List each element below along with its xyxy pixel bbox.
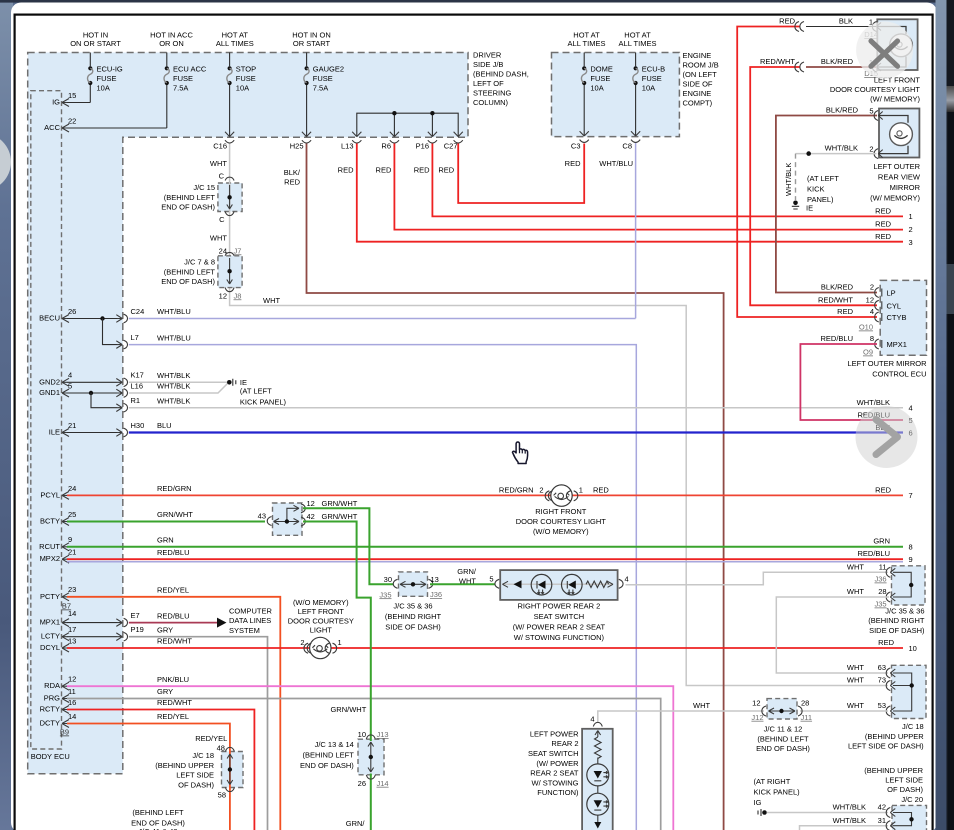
svg-text:2: 2 — [870, 283, 874, 292]
svg-text:13: 13 — [68, 636, 76, 645]
label J/C 35 & 36 (BEHIND RIGHT SIDE OF DASH) right — [868, 606, 925, 635]
J/C 13 & 14 connector glyphs — [358, 730, 389, 788]
terminal 7 RED — [875, 485, 913, 500]
svg-text:DCTY: DCTY — [40, 719, 60, 728]
svg-text:(BEHIND LEFT: (BEHIND LEFT — [757, 734, 809, 743]
svg-text:J35: J35 — [379, 590, 391, 599]
svg-text:ENGINE: ENGINE — [683, 51, 712, 60]
pin DCTY 14 — [40, 712, 77, 728]
svg-text:GRN/: GRN/ — [346, 819, 366, 828]
wire RDA PNK/BLU right then down to page bottom — [67, 686, 673, 830]
svg-text:12: 12 — [68, 675, 76, 684]
wire WHT J/C 11-12 pin 28 to J/C 18 pin 53 — [800, 710, 888, 712]
wire LCTY GRY right then down to page bottom — [129, 637, 268, 830]
svg-text:10A: 10A — [590, 84, 603, 93]
svg-text:J/C 7 & 8: J/C 7 & 8 — [184, 258, 215, 267]
svg-text:RED/YEL: RED/YEL — [157, 586, 189, 595]
svg-text:22: 22 — [68, 116, 76, 125]
svg-text:P16: P16 — [416, 142, 429, 151]
J/C 15 box — [218, 183, 242, 212]
svg-text:SIDE OF: SIDE OF — [683, 80, 713, 89]
terminal 2 RED — [875, 219, 913, 234]
label (BEHIND LEFT END OF DASH) J/C 41 & 42 bottom left — [131, 808, 185, 830]
svg-text:26: 26 — [68, 307, 76, 316]
J/C 35-36 left internal wiring — [400, 581, 426, 587]
svg-text:RED/BLU: RED/BLU — [157, 548, 190, 557]
net label HOT AT ALL TIMES (STOP) — [216, 31, 254, 48]
wire K17 WHT/BLK to ground — [129, 381, 227, 383]
wire DCTY RED/YEL right then down through J/C 18 to page bottom — [67, 724, 230, 830]
svg-text:(AT LEFT: (AT LEFT — [807, 174, 839, 183]
svg-text:14: 14 — [68, 609, 76, 618]
svg-text:7.5A: 7.5A — [313, 84, 328, 93]
pin LCTY 17 to P19 — [41, 625, 144, 641]
svg-text:4: 4 — [625, 574, 629, 583]
wire C24 WHT/BLU to C8 join — [129, 318, 636, 320]
J/C 43 internal wiring — [274, 504, 306, 526]
svg-text:END OF DASH): END OF DASH) — [161, 203, 215, 212]
wire PCTY RED/YEL right then down to page bottom — [67, 597, 280, 830]
component RIGHT FRONT DOOR COURTESY LIGHT — [545, 485, 578, 506]
svg-text:RED/BLU: RED/BLU — [820, 334, 853, 343]
svg-text:GRN/WHT: GRN/WHT — [322, 499, 358, 508]
svg-text:FUSE: FUSE — [313, 74, 333, 83]
svg-text:J7: J7 — [234, 246, 242, 255]
svg-text:RED: RED — [875, 206, 891, 215]
svg-text:10A: 10A — [97, 84, 110, 93]
svg-text:DATA LINES: DATA LINES — [229, 616, 271, 625]
svg-text:LIGHT: LIGHT — [310, 626, 333, 635]
svg-text:LEFT FRONT: LEFT FRONT — [298, 607, 345, 616]
svg-text:(BEHIND UPPER: (BEHIND UPPER — [865, 732, 924, 741]
wire C8 WHT/BLU down joins C24 line — [635, 143, 637, 318]
svg-text:W/ STOWING FUNCTION): W/ STOWING FUNCTION) — [514, 633, 605, 642]
svg-text:53: 53 — [878, 701, 886, 710]
svg-text:26: 26 — [358, 779, 366, 788]
svg-text:J/C 35 & 36: J/C 35 & 36 — [885, 606, 924, 615]
svg-text:ALL TIMES: ALL TIMES — [619, 39, 657, 48]
label (AT RIGHT KICK PANEL) IG — [754, 777, 801, 807]
J/C 18 right pin 63 — [847, 663, 895, 678]
svg-text:CTYB: CTYB — [887, 313, 907, 322]
wire color label BLK/RED under H25 — [284, 168, 301, 187]
svg-text:RED: RED — [875, 485, 891, 494]
svg-text:STEERING: STEERING — [473, 88, 512, 97]
svg-text:FUSE: FUSE — [236, 74, 256, 83]
svg-text:16: 16 — [68, 698, 76, 707]
svg-text:LEFT POWER: LEFT POWER — [530, 729, 579, 738]
svg-text:REAR VIEW: REAR VIEW — [878, 172, 921, 181]
svg-text:GRN: GRN — [157, 536, 174, 545]
svg-text:(W/ MEMORY): (W/ MEMORY) — [870, 94, 920, 103]
svg-text:GRN/WHT: GRN/WHT — [322, 512, 358, 521]
wire J/C43 pin 12 GRN/WHT to J/C 35-36 pin 30 — [303, 508, 394, 584]
left power seat switch internals — [587, 731, 609, 829]
labels around right front courtesy light — [499, 486, 610, 495]
svg-text:CONTROL ECU: CONTROL ECU — [872, 369, 926, 378]
junction dot GND1 branch — [89, 391, 93, 395]
svg-text:DOOR COURTESY LIGHT: DOOR COURTESY LIGHT — [830, 85, 921, 94]
svg-text:C: C — [219, 215, 225, 224]
svg-text:MPX2: MPX2 — [40, 554, 60, 563]
svg-text:RED: RED — [593, 486, 609, 495]
svg-text:RED: RED — [284, 177, 300, 186]
svg-text:J14: J14 — [377, 779, 389, 788]
svg-text:BECU: BECU — [39, 314, 60, 323]
svg-text:ECU-IG: ECU-IG — [97, 65, 123, 74]
ground IG at right kick panel — [758, 809, 767, 816]
svg-text:BLK/RED: BLK/RED — [821, 57, 854, 66]
wire RCTY RED/WHT right then down to page bottom — [67, 710, 254, 830]
wire WHT J/C35-36 pin 28 to J/C 18 pin 63 — [776, 597, 889, 673]
svg-text:RED/WHT: RED/WHT — [818, 295, 853, 304]
right window frame — [936, 0, 954, 830]
pin IG 15 — [52, 91, 76, 107]
svg-text:DOOR COURTESY: DOOR COURTESY — [288, 616, 354, 625]
svg-text:(BEHIND UPPER: (BEHIND UPPER — [864, 766, 923, 775]
svg-text:IE: IE — [806, 204, 813, 213]
svg-text:1: 1 — [579, 486, 583, 495]
svg-text:MPX1: MPX1 — [887, 340, 907, 349]
wire branch BECU to L7 — [103, 319, 118, 345]
wire WHT left seat switch pin 4 to J/C 11-12 pin 12 — [598, 711, 764, 722]
wire DCYL RED/WHT to left front courtesy light and terminal 10 — [67, 647, 903, 649]
svg-text:9: 9 — [909, 555, 913, 564]
svg-text:J12: J12 — [751, 713, 763, 722]
svg-text:(BEHIND LEFT: (BEHIND LEFT — [132, 808, 184, 817]
svg-text:(ON LEFT: (ON LEFT — [683, 70, 718, 79]
svg-text:KICK: KICK — [807, 185, 825, 194]
mirror ECU pin MPX1 — [820, 334, 906, 349]
pin ILE 21 to H30 — [49, 421, 145, 437]
svg-text:(BEHIND RIGHT: (BEHIND RIGHT — [868, 616, 925, 625]
svg-text:J36: J36 — [430, 590, 442, 599]
svg-text:SYSTEM: SYSTEM — [229, 626, 260, 635]
label LEFT OUTER REAR VIEW MIRROR (W/ MEMORY) — [870, 162, 921, 203]
pin PRG 11 — [44, 687, 76, 703]
svg-text:GAUGE2: GAUGE2 — [313, 65, 344, 74]
junction dot BECU branch — [100, 316, 104, 320]
connector C3 on engine J/B edge — [571, 131, 589, 151]
svg-text:SIDE OF DASH): SIDE OF DASH) — [869, 626, 925, 635]
svg-text:C27: C27 — [444, 142, 458, 151]
label J/C 15 — [161, 183, 215, 212]
wire R1 WHT/BLK long to terminal 4 — [129, 407, 903, 409]
connector P16 on J/B edge — [416, 132, 437, 151]
net label HOT AT ALL TIMES (ECU-B) — [619, 31, 657, 48]
svg-text:ILE: ILE — [49, 428, 60, 437]
pin MPX1 14 to E7 — [40, 609, 140, 627]
svg-text:11: 11 — [68, 687, 76, 696]
svg-text:B9: B9 — [60, 728, 69, 737]
wire R6 RED to terminal 2 — [394, 144, 903, 230]
svg-text:RIGHT FRONT: RIGHT FRONT — [535, 507, 587, 516]
mirror ECU pin CTYB — [837, 307, 906, 322]
wire WHT/BLK from page bottom to J/C 20 pin 31 — [800, 826, 889, 830]
svg-text:J/C 15: J/C 15 — [193, 183, 215, 192]
J/C 35 and 36 right box — [892, 566, 926, 605]
right seat switch internals — [502, 574, 613, 595]
svg-text:WHT/BLU: WHT/BLU — [599, 159, 633, 168]
svg-text:2: 2 — [909, 225, 913, 234]
svg-text:C24: C24 — [131, 307, 145, 316]
svg-text:(BEHIND LEFT: (BEHIND LEFT — [303, 751, 355, 760]
label LEFT OUTER MIRROR CONTROL ECU — [847, 359, 927, 379]
svg-text:SIDE OF DASH): SIDE OF DASH) — [385, 623, 441, 632]
label J/C 35 & 36 (BEHIND RIGHT SIDE OF DASH) — [385, 602, 442, 632]
svg-text:WHT: WHT — [693, 701, 710, 710]
svg-text:4: 4 — [870, 307, 874, 316]
svg-text:L13: L13 — [341, 142, 354, 151]
svg-text:30: 30 — [384, 575, 392, 584]
terminal 4 WHT/BLK — [857, 398, 913, 413]
pin RCUT 9 — [39, 535, 72, 551]
J/C 18 right internal wiring — [893, 673, 914, 711]
label (W/O MEMORY) LEFT FRONT DOOR COURTESY LIGHT — [288, 598, 354, 635]
wire fuse ECU ACC to ACC pin — [67, 127, 167, 129]
svg-text:58: 58 — [218, 791, 226, 800]
wire BCTY GRN/WHT to J/C 43 — [67, 521, 265, 523]
J/C 18 left pin 48 — [217, 744, 235, 753]
svg-text:LEFT OF: LEFT OF — [473, 79, 504, 88]
svg-text:BLK: BLK — [839, 17, 853, 26]
svg-text:END OF DASH): END OF DASH) — [300, 761, 354, 770]
wire MPX2 RED/BLU long to terminal 9 — [67, 558, 903, 560]
svg-text:ACC: ACC — [44, 123, 60, 132]
svg-text:GRN/WHT: GRN/WHT — [330, 705, 366, 714]
svg-text:13: 13 — [431, 575, 439, 584]
svg-text:WHT: WHT — [210, 233, 227, 242]
svg-text:ENGINE: ENGINE — [683, 89, 712, 98]
svg-text:WHT/BLK: WHT/BLK — [825, 144, 858, 153]
pin 12 J8 labels — [219, 291, 242, 300]
svg-text:WHT/BLK: WHT/BLK — [784, 163, 793, 196]
svg-text:C16: C16 — [213, 142, 227, 151]
wire L7 WHT/BLU long down to page bottom — [129, 345, 637, 830]
svg-text:5: 5 — [489, 574, 493, 583]
svg-text:FUSE: FUSE — [642, 74, 662, 83]
svg-text:ECU-B: ECU-B — [642, 65, 665, 74]
fuse ECU ACC 7.5A — [164, 53, 207, 129]
svg-text:LEFT SIDE: LEFT SIDE — [885, 776, 923, 785]
svg-text:J8: J8 — [234, 291, 242, 300]
connector L13 on J/B edge — [341, 132, 361, 151]
pin BCTY 25 — [40, 510, 76, 526]
terminal 1 RED — [875, 206, 913, 221]
svg-text:C3: C3 — [571, 142, 581, 151]
svg-text:BLU: BLU — [157, 421, 172, 430]
svg-text:IG: IG — [754, 798, 762, 807]
engine room J/B box — [552, 53, 680, 137]
pin 42 GRN/WHT label — [307, 512, 358, 521]
wire L16 WHT/BLK diagonal to ground — [129, 384, 228, 394]
J/C 13 and 14 box — [358, 739, 384, 775]
connector arcs light D14 D15 pins — [872, 22, 881, 73]
pin PCTY 23 — [40, 585, 76, 601]
pin 5 right seat switch — [489, 574, 499, 588]
svg-text:10A: 10A — [642, 84, 655, 93]
J/C 35-36 right pin 11 — [847, 562, 895, 583]
J/C 7 & 8 box — [218, 256, 242, 288]
wire J/C43 pin 42 GRN/WHT down to J/C 13-14 — [303, 522, 371, 830]
svg-text:LP: LP — [887, 289, 896, 298]
svg-text:MIRROR: MIRROR — [890, 183, 921, 192]
svg-text:RED/WHT: RED/WHT — [760, 57, 795, 66]
svg-text:WHT/BLU: WHT/BLU — [157, 333, 191, 342]
svg-text:WHT: WHT — [210, 159, 227, 168]
wire D15 net RED/WHT vertical from CYL up right — [750, 67, 877, 305]
pin RDA 12 — [44, 675, 76, 691]
wire fuse ECU-IG to IG pin — [67, 102, 90, 104]
label J/C 18 (BEHIND UPPER LEFT SIDE OF DASH) right — [848, 722, 924, 751]
svg-text:5: 5 — [869, 106, 873, 115]
svg-text:12: 12 — [866, 295, 874, 304]
svg-text:SEAT SWITCH: SEAT SWITCH — [528, 749, 579, 758]
driver side J/B (L-shaped box) — [28, 53, 468, 774]
svg-text:RED: RED — [875, 232, 891, 241]
fuse ECU-IG 10A — [88, 53, 123, 103]
mouse hand cursor — [513, 442, 528, 464]
svg-text:21: 21 — [68, 421, 76, 430]
svg-text:LEFT OUTER: LEFT OUTER — [873, 162, 920, 171]
svg-text:(BEHIND RIGHT: (BEHIND RIGHT — [385, 612, 442, 621]
junction dot bus P16 — [430, 111, 434, 115]
wire C27 to C3 RED U-shape — [458, 144, 584, 204]
terminal 8 GRN — [873, 537, 912, 552]
svg-text:OF DASH): OF DASH) — [178, 780, 214, 789]
svg-text:WHT/BLU: WHT/BLU — [157, 307, 191, 316]
svg-text:WHT/BLK: WHT/BLK — [157, 371, 190, 380]
pin RCTY 16 — [40, 698, 77, 714]
terminal 3 RED — [875, 232, 913, 247]
svg-text:WHT: WHT — [847, 562, 864, 571]
svg-text:1: 1 — [338, 638, 342, 647]
ground IE at left kick panel — [227, 378, 287, 406]
svg-text:J/C 13 & 14: J/C 13 & 14 — [315, 740, 354, 749]
svg-text:ROOM J/B: ROOM J/B — [683, 61, 719, 70]
svg-text:25: 25 — [68, 510, 76, 519]
svg-text:MPX1: MPX1 — [40, 618, 60, 627]
fuse ECU-B 10A — [633, 53, 665, 136]
svg-text:28: 28 — [878, 587, 886, 596]
wire H25 BLK/RED down right and down to page bottom — [307, 144, 724, 830]
svg-text:2: 2 — [300, 638, 304, 647]
svg-text:END OF DASH): END OF DASH) — [756, 744, 810, 753]
J/C 11-12 pin 12 — [751, 699, 766, 722]
svg-text:10A: 10A — [236, 84, 249, 93]
svg-text:R6: R6 — [381, 142, 391, 151]
svg-text:2: 2 — [539, 486, 543, 495]
svg-text:12: 12 — [219, 291, 227, 300]
J/C 43 box — [273, 503, 303, 535]
svg-text:OR ON: OR ON — [159, 39, 184, 48]
label DRIVER SIDE J/B — [473, 50, 529, 107]
svg-text:RED: RED — [414, 166, 430, 175]
svg-text:RED/GRN: RED/GRN — [157, 484, 192, 493]
svg-text:WHT/BLK: WHT/BLK — [857, 398, 890, 407]
svg-text:RED: RED — [875, 219, 891, 228]
J/C 43 connector glyphs — [258, 512, 272, 526]
svg-text:7: 7 — [909, 491, 913, 500]
net label HOT AT ALL TIMES (DOME) — [568, 31, 606, 48]
svg-text:P19: P19 — [131, 625, 144, 634]
svg-text:12: 12 — [307, 499, 315, 508]
svg-text:(W/ POWER: (W/ POWER — [536, 759, 579, 768]
label RIGHT FRONT DOOR COURTESY LIGHT (W/O MEMORY) — [516, 507, 607, 536]
svg-text:OF DASH): OF DASH) — [887, 785, 923, 794]
connector splice on D14 wire — [795, 22, 804, 32]
arrowhead computer data lines — [217, 618, 227, 628]
J/C15 internal arrow and dot — [225, 185, 234, 216]
svg-text:J/C 20: J/C 20 — [901, 795, 923, 804]
mirror ECU pin CYL — [818, 295, 901, 310]
next page arrow overlay — [856, 406, 918, 468]
svg-text:RED: RED — [779, 17, 795, 26]
svg-text:DRIVER: DRIVER — [473, 50, 502, 59]
svg-text:(W/ POWER REAR 2 SEAT: (W/ POWER REAR 2 SEAT — [513, 623, 606, 632]
svg-text:28: 28 — [801, 699, 809, 708]
svg-text:H25: H25 — [290, 142, 304, 151]
svg-text:(W/ MEMORY): (W/ MEMORY) — [870, 193, 920, 202]
svg-text:RED: RED — [878, 638, 894, 647]
svg-text:ALL TIMES: ALL TIMES — [216, 39, 254, 48]
svg-text:LEFT SIDE OF DASH): LEFT SIDE OF DASH) — [848, 742, 924, 751]
wire PCYL RED/GRN to right front courtesy light and terminal 7 — [67, 494, 903, 496]
svg-text:CYL: CYL — [887, 301, 902, 310]
svg-text:42: 42 — [307, 512, 315, 521]
svg-text:OR START: OR START — [293, 39, 331, 48]
bus tying L13 R6 P16 C27 — [357, 113, 458, 136]
svg-text:ON OR START: ON OR START — [70, 39, 121, 48]
svg-text:RIGHT POWER REAR 2: RIGHT POWER REAR 2 — [518, 602, 601, 611]
svg-text:RED: RED — [438, 166, 454, 175]
labels 2 and 1 around DCYL light — [300, 638, 341, 647]
J/C 20 internal wiring — [893, 813, 914, 826]
svg-text:GRY: GRY — [157, 625, 173, 634]
svg-text:E7: E7 — [131, 611, 140, 620]
svg-text:BCTY: BCTY — [40, 517, 60, 526]
svg-text:REAR 2: REAR 2 — [551, 739, 578, 748]
svg-text:FUSE: FUSE — [173, 74, 193, 83]
svg-text:END OF DASH): END OF DASH) — [161, 277, 215, 286]
svg-text:WHT: WHT — [847, 663, 864, 672]
pin R1 — [116, 396, 140, 412]
connector splice on D15 wire — [795, 62, 804, 72]
left power seat switch pin 4 — [590, 715, 602, 727]
svg-text:(AT LEFT: (AT LEFT — [240, 387, 272, 396]
connector H25 on J/B edge — [290, 132, 311, 151]
label ENGINE ROOM J/B — [683, 51, 719, 108]
fuse STOP 10A — [227, 53, 256, 137]
svg-text:10: 10 — [358, 730, 366, 739]
J/C 35 and 36 left box — [399, 572, 428, 596]
svg-text:RCUT: RCUT — [39, 542, 60, 551]
svg-text:7.5A: 7.5A — [173, 84, 188, 93]
svg-text:PCTY: PCTY — [40, 592, 60, 601]
connector C16 on J/B edge — [213, 132, 234, 151]
svg-text:BLK/RED: BLK/RED — [826, 106, 859, 115]
label J/C 18 (BEHIND UPPER LEFT SIDE OF DASH) left — [155, 751, 214, 789]
svg-text:COMPUTER: COMPUTER — [229, 607, 273, 616]
terminal 6 BLU — [875, 423, 912, 438]
svg-text:RED/WHT: RED/WHT — [157, 698, 192, 707]
svg-text:63: 63 — [878, 663, 886, 672]
svg-text:R1: R1 — [131, 396, 141, 405]
svg-text:WHT/BLK: WHT/BLK — [157, 382, 190, 391]
net label HOT IN ON OR START (GAUGE2) — [292, 31, 331, 48]
terminal 9 RED/BLU — [857, 549, 912, 564]
svg-text:RDA: RDA — [44, 681, 60, 690]
